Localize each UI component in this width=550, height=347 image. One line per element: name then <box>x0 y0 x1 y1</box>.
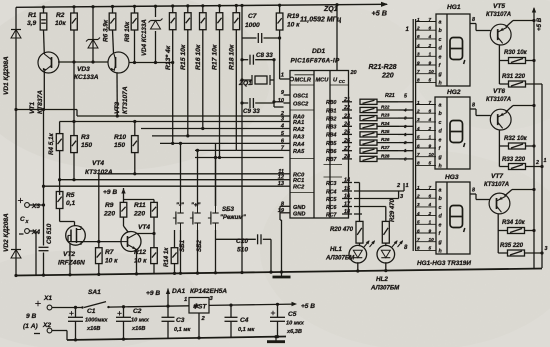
resistor R15 <box>187 6 189 13</box>
zener VD4 КС133А <box>155 6 157 17</box>
wire psu ground rail <box>67 337 286 341</box>
LED HL1 АЛ307БМ <box>349 245 367 263</box>
wire RA5a net staircase <box>236 149 283 151</box>
terminal X2 <box>34 333 40 335</box>
display HG2 pin 8 stub <box>470 108 476 110</box>
capacitor C2 10мк x16В <box>122 305 125 308</box>
wire main ground bottom rail <box>16 269 542 276</box>
wire SB3 upper column <box>215 158 217 207</box>
wire RC6 to R29 <box>354 206 386 208</box>
ground symbol psu <box>275 337 277 342</box>
capacitor C5 10мк x6,3В <box>276 303 279 306</box>
resistor R10 150 <box>132 136 139 153</box>
terminal X3 <box>18 200 23 202</box>
display HG1 pin 8 stub <box>470 23 476 25</box>
button SB1 "-" <box>180 206 182 213</box>
terminal X4 <box>19 233 24 235</box>
node +9V arrow near R9 <box>121 188 125 194</box>
wire VT2 source to rail <box>69 243 71 275</box>
diode VD1 КД208А <box>15 7 17 108</box>
wire measure node horizontal <box>16 109 77 111</box>
IC DD1 MCLR inversion bubble <box>290 77 294 81</box>
wire OSC column <box>273 60 275 107</box>
resistor R8 10к <box>134 6 136 13</box>
button SB3 Режим <box>215 206 217 213</box>
resistor R1 3,9 <box>43 7 45 13</box>
seven segment digit HG3 <box>450 206 463 228</box>
wire RA1 net (R4 R3 R10 tops) <box>60 121 284 123</box>
wire VT4 emitter to rail <box>136 250 138 274</box>
IC DD1 Ucc pin 20 wire to +5V rail <box>336 5 338 71</box>
resistor R14 1к <box>174 230 176 248</box>
IC DD1 GND pins wire to rail <box>280 205 284 207</box>
zener VD3 КС133А <box>92 7 94 62</box>
wire VT4 collector to R11 R12 column <box>137 233 155 235</box>
wire X4 down to rail <box>30 230 37 232</box>
wire SB3 column <box>215 143 217 206</box>
wire VT6 emitter to +5V column <box>506 106 513 113</box>
LED HL2 АЛ307БМ <box>377 245 395 263</box>
resistor R9 220 <box>120 202 127 217</box>
wire VT3 emitter down <box>116 72 118 116</box>
node: VD1-VD2 junction to measure rail <box>14 108 17 111</box>
wire RC1 net <box>60 179 284 181</box>
resistor R7 10к <box>98 174 100 248</box>
wire VT7 collector down <box>497 214 499 231</box>
capacitor C6 510 <box>43 110 45 246</box>
mosfet VT2 IRFZ46N <box>74 222 76 226</box>
ground symbol main <box>281 272 283 277</box>
wire RC4 up right <box>354 190 404 192</box>
wire VT7 emitter to +5V column <box>505 190 513 197</box>
transistor VT3 КТ3107А <box>108 52 129 73</box>
resistor R6 3,9к <box>112 7 114 14</box>
wire RA2 net <box>141 128 284 130</box>
wire DA1 output <box>209 304 293 305</box>
wire X3 to divider column <box>30 204 44 206</box>
resistor R5 0,1 <box>56 192 63 209</box>
capacitor C9 33 <box>240 101 243 104</box>
wire RA3 net <box>152 135 284 137</box>
wire VT3 collector net to R8 VD4 R13 <box>129 62 173 64</box>
button SB2 "+" <box>197 206 199 213</box>
wire RA5 net <box>195 157 284 159</box>
diode VD2 КД208А <box>15 110 17 276</box>
resistor R19 10к <box>279 5 281 13</box>
wire X1 to SA1 <box>52 307 82 309</box>
segment bus vertical lines <box>412 19 414 251</box>
resistor R16 <box>202 6 204 13</box>
capacitor C7 1000 <box>241 6 243 273</box>
transistor VT4 КТ3102А <box>121 232 141 252</box>
wire RC3 to R20 <box>354 182 360 184</box>
terminal X1 <box>35 303 41 305</box>
+5V arrow top <box>381 2 388 7</box>
resistor R20 470 <box>356 221 363 243</box>
resistor R12 10к <box>153 234 155 248</box>
seven segment digit HG2 <box>450 121 463 143</box>
capacitor C4 0,1мк <box>229 304 232 307</box>
resistor R2 10к <box>73 7 75 13</box>
wire DA1 pin2 to ground <box>198 313 200 338</box>
capacitor C8 33 <box>240 58 243 61</box>
wire RA4 net <box>160 142 284 144</box>
wire SA1 to DA1 input <box>109 306 190 307</box>
wire measure node jog to RA0 <box>76 110 78 117</box>
wire VT5 collector down <box>498 45 500 61</box>
wire RC0 net <box>99 173 284 175</box>
resistor R18 <box>235 6 237 13</box>
resistor R11 220 <box>153 200 155 203</box>
wire VT5 emitter to +5V column <box>506 21 513 28</box>
resistor R17 <box>219 6 221 13</box>
seven segment digit HG1 <box>450 38 463 60</box>
wire RC2 net <box>44 185 284 187</box>
IC DD1 right pins RC <box>342 182 352 184</box>
wire VT1 collector down <box>43 71 45 110</box>
resistor R3 150 <box>71 136 78 153</box>
capacitor C1 1000мк x16В <box>74 306 77 309</box>
wire VT2 gate to R7 and VT4 base <box>67 235 69 241</box>
wire VT1 base to VT3 base <box>58 61 109 63</box>
resistor R4 5,1к <box>56 134 63 151</box>
wire SB2 column <box>197 150 199 206</box>
resistor R29 470 <box>382 221 389 243</box>
wire RC7 stub <box>354 213 362 215</box>
resistor R13* <box>172 6 174 13</box>
+5V right column <box>533 8 535 269</box>
crystal ZQ1 <box>242 79 252 81</box>
wire SB1 column <box>180 143 182 206</box>
IC DD1 right pins RB <box>342 101 352 103</box>
wire X2 to psu ground rail <box>52 330 67 332</box>
wire VT6 collector down <box>498 130 500 146</box>
transistor VT1 КТ837А <box>38 52 59 73</box>
display HG3 pin 8 stub <box>470 193 476 195</box>
wire RC5 right <box>354 198 399 200</box>
wire +5V top rail <box>16 4 387 7</box>
wire R9 R11 top link <box>124 199 155 201</box>
wire control line 1 <box>541 84 543 268</box>
capacitor C3 0,1мк <box>167 306 169 317</box>
capacitor C10 510 <box>216 238 256 240</box>
